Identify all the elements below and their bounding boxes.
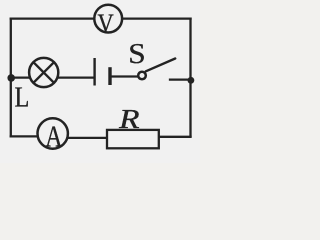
svg-text:V: V	[98, 9, 114, 38]
svg-text:S: S	[128, 38, 145, 70]
svg-text:R: R	[118, 104, 140, 134]
svg-text:A: A	[45, 118, 63, 153]
svg-text:L: L	[15, 82, 30, 113]
